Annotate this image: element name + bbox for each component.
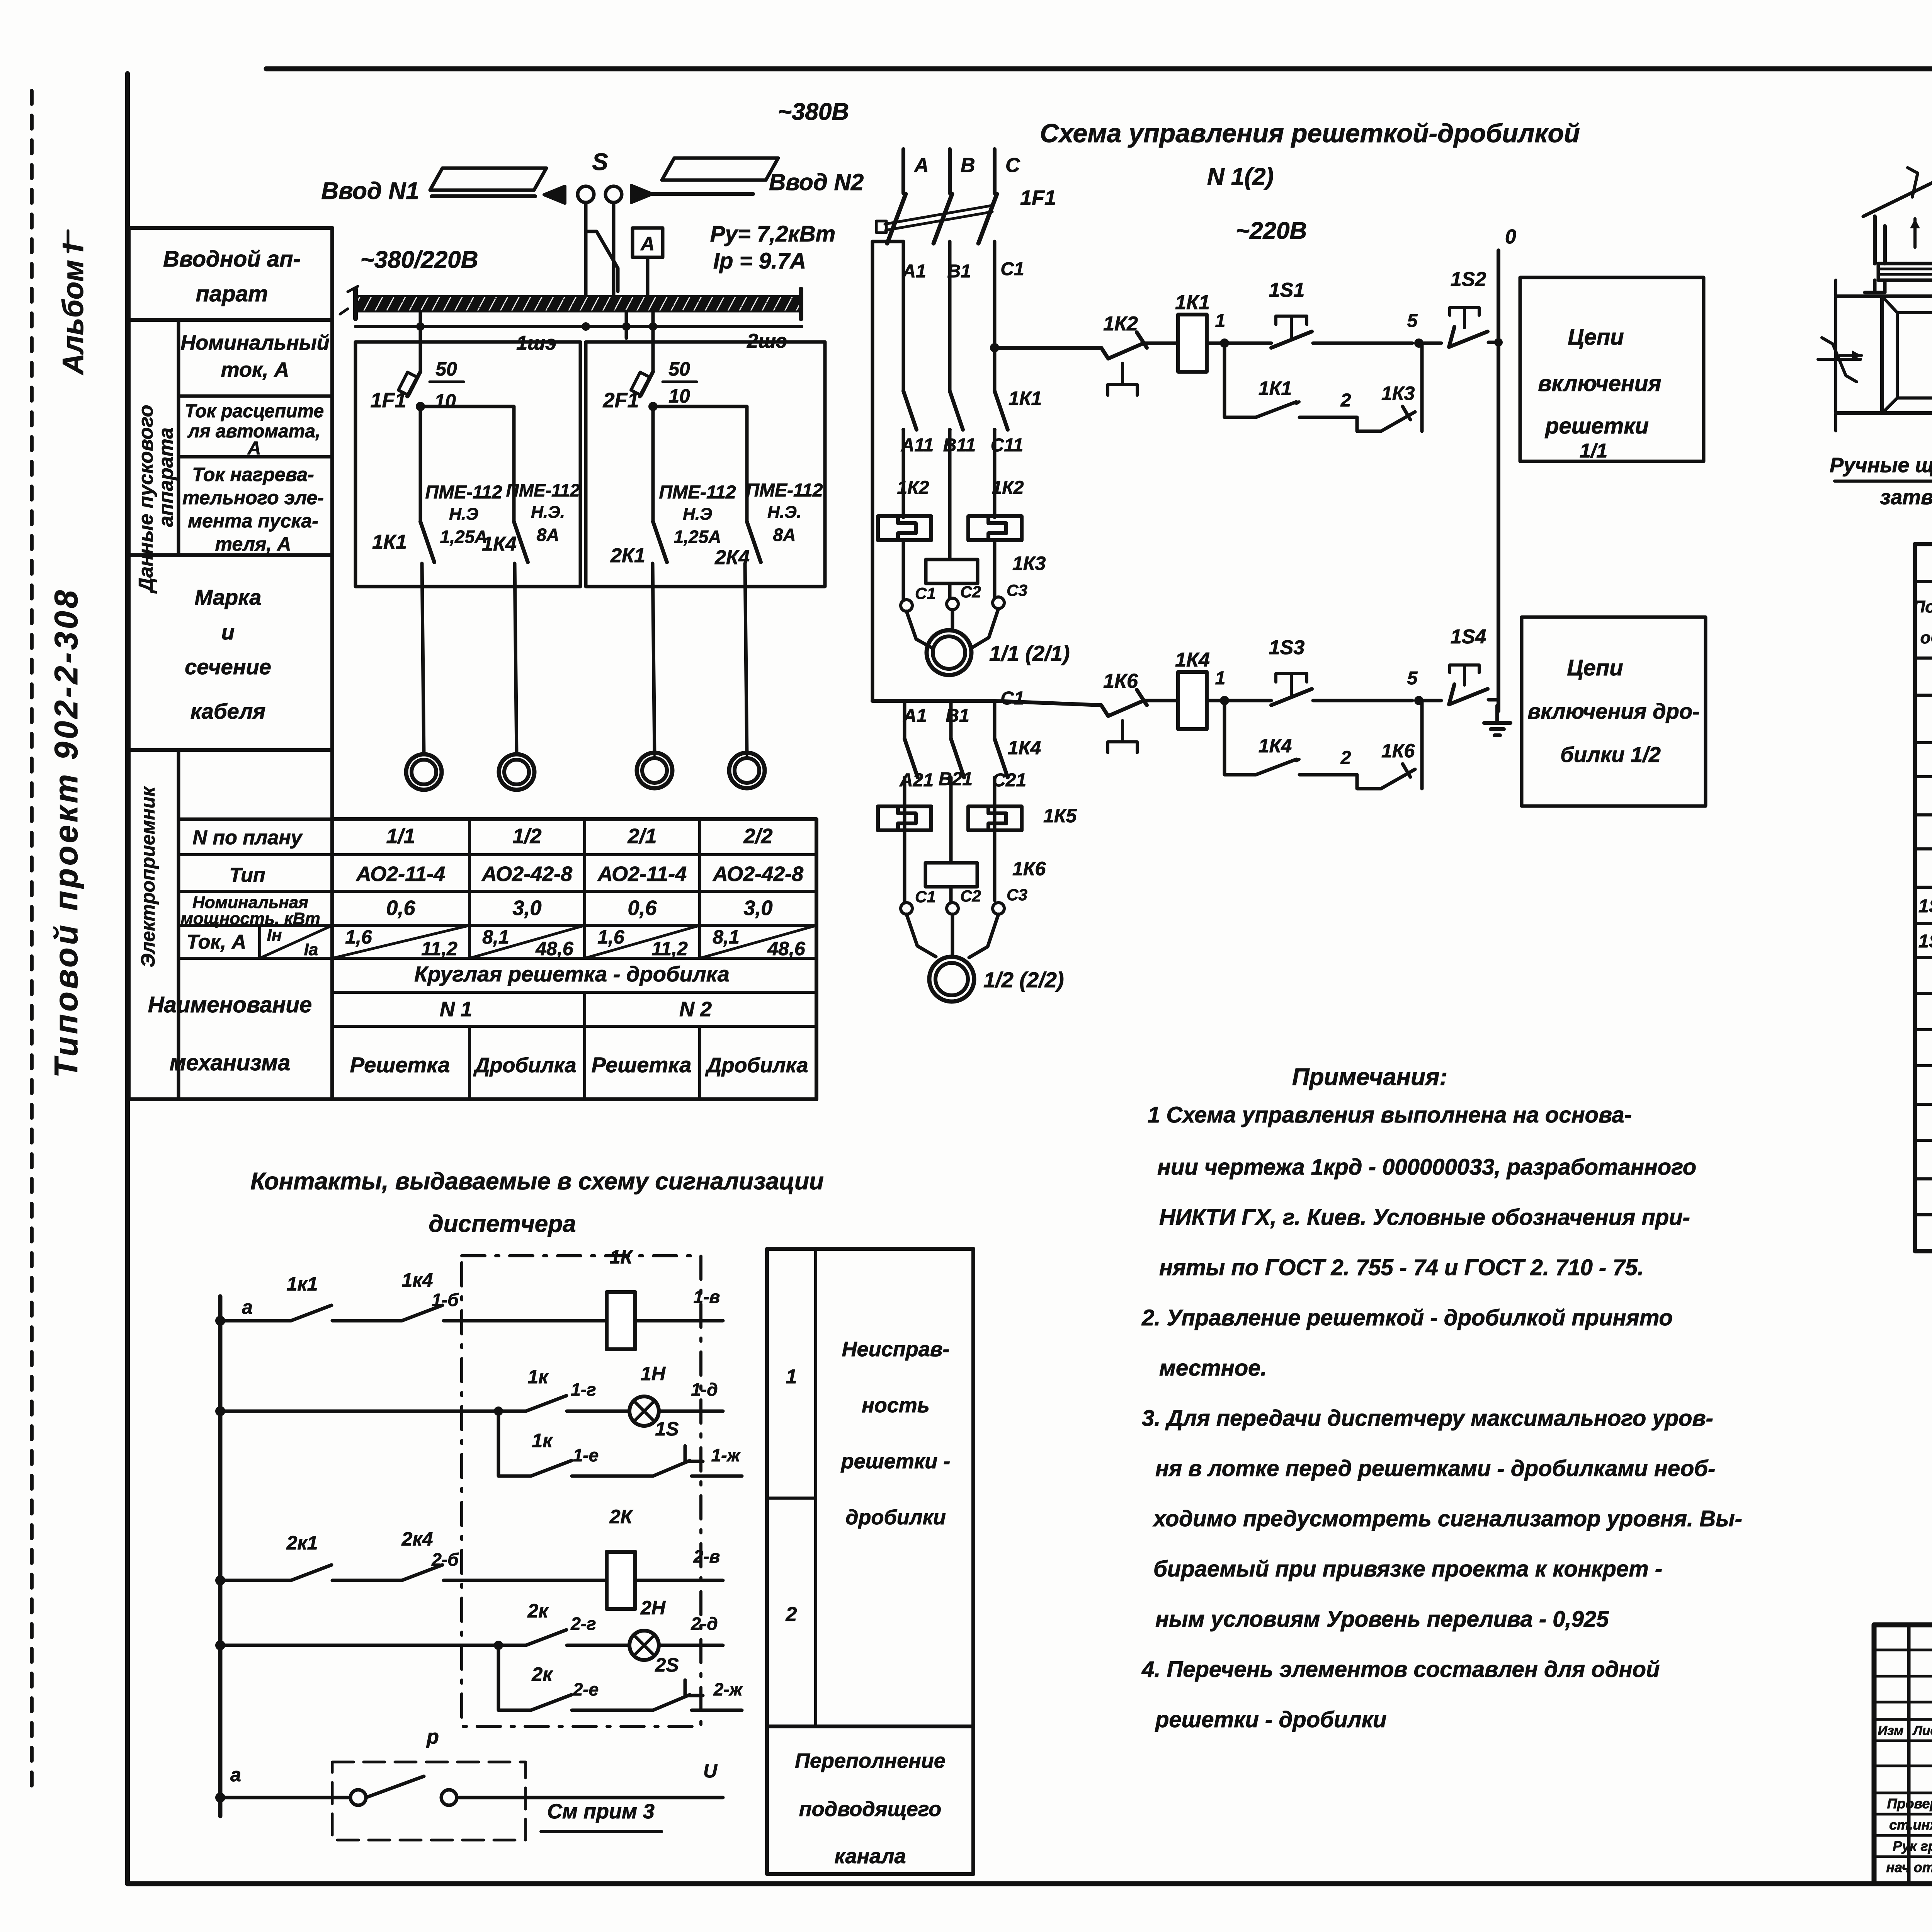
svg-text:1-е: 1-е <box>573 1445 599 1465</box>
left cut line <box>1834 280 1837 431</box>
diagonal In/Ia cell <box>332 925 469 958</box>
svg-text:решетки - дробилки: решетки - дробилки <box>1155 1707 1386 1732</box>
svg-text:бираемый при привязке: бираемый при привязке проекта к конкрет … <box>1153 1556 1662 1582</box>
svg-text:Альбом I: Альбом I <box>57 243 90 376</box>
legend box neispravnost <box>767 1249 973 1726</box>
svg-text:мощность, кВт: мощность, кВт <box>180 909 320 928</box>
frame top border <box>266 66 1932 71</box>
svg-text:2Н: 2Н <box>640 1597 666 1619</box>
terminal c1 motor 1/2 <box>901 903 912 914</box>
svg-text:аппарата: аппарата <box>155 427 177 527</box>
svg-text:С1: С1 <box>1000 259 1024 279</box>
svg-text:Дробилка: Дробилка <box>473 1054 576 1077</box>
svg-text:С1: С1 <box>915 584 936 602</box>
wire row3 <box>220 1579 291 1582</box>
svg-text:2: 2 <box>1340 390 1351 411</box>
feeder symbol parallelogram 2 <box>662 158 778 180</box>
contact 1K row2 <box>526 1396 566 1411</box>
svg-text:2к: 2к <box>527 1600 549 1622</box>
NC contact 1K2 overcurrent <box>1101 332 1147 359</box>
contact circle left <box>350 1790 366 1805</box>
svg-text:Н.Э.: Н.Э. <box>767 503 801 522</box>
svg-text:1/1: 1/1 <box>386 825 415 848</box>
diagonal In/Ia header <box>260 925 332 958</box>
svg-text:решетки -: решетки - <box>840 1450 950 1473</box>
wire 1S1 to node 5 <box>1313 342 1412 345</box>
feeder line 2 <box>652 192 753 196</box>
box cepi vklyucheniya drobilki <box>1522 617 1706 806</box>
feeder wire to 2F1 <box>651 311 655 372</box>
wire node1 to 1S1 <box>1207 342 1271 345</box>
svg-text:0: 0 <box>1505 226 1516 248</box>
legend box perepolnenie <box>767 1726 973 1874</box>
svg-text:1F1: 1F1 <box>370 389 406 412</box>
contact 1K4 row1 <box>402 1305 442 1321</box>
svg-text:S: S <box>592 149 608 175</box>
wire to motor <box>515 563 517 754</box>
svg-text:нач отд: нач отд <box>1886 1859 1932 1875</box>
svg-text:А1: А1 <box>902 261 926 282</box>
contact 2K4 <box>402 1565 442 1580</box>
terminal c2 motor 1/2 <box>947 903 958 914</box>
svg-text:Номинальный: Номинальный <box>180 331 330 354</box>
svg-text:1К3: 1К3 <box>1381 383 1415 404</box>
control tap node C1 <box>990 343 999 352</box>
frame left border <box>125 73 130 1884</box>
branch wire in cabinet 2 <box>653 405 747 408</box>
svg-text:1,25А: 1,25А <box>674 527 721 547</box>
feeder underline 1 <box>432 194 535 198</box>
svg-text:N по плану: N по плану <box>192 827 303 849</box>
busbar right end serif <box>799 289 803 319</box>
svg-text:тельного эле-: тельного эле- <box>182 487 324 509</box>
riser walls below gate <box>1875 280 1932 293</box>
overcurrent relay coil 1K3 <box>926 560 978 583</box>
svg-text:11,2: 11,2 <box>421 938 457 959</box>
contactor coil 1K4 <box>1178 672 1207 729</box>
svg-text:Типовой проект 902-2-308: Типовой проект 902-2-308 <box>48 588 84 1078</box>
svg-text:Схема управления решеткой-др: Схема управления решеткой-дробилкой <box>1040 119 1580 148</box>
svg-text:затворы: затворы <box>1880 486 1932 509</box>
ammeter wire <box>646 257 650 298</box>
svg-text:Неисправ-: Неисправ- <box>842 1338 950 1361</box>
lower branch bus wire <box>872 699 995 703</box>
svg-text:1К1: 1К1 <box>1259 378 1292 399</box>
svg-text:2-г: 2-г <box>570 1614 596 1634</box>
svg-text:ст.инж: ст.инж <box>1889 1817 1932 1833</box>
bypass vertical wire <box>871 241 874 701</box>
svg-text:3,0: 3,0 <box>512 896 541 920</box>
svg-text:Iа: Iа <box>304 940 318 959</box>
bus node row1 <box>215 1316 225 1326</box>
ammeter A box <box>633 228 663 257</box>
node 1 lower <box>1220 696 1229 705</box>
svg-text:теля, А: теля, А <box>215 533 291 555</box>
ledge left <box>1865 291 1885 294</box>
svg-text:С: С <box>1005 154 1020 177</box>
svg-text:Переполнение: Переполнение <box>795 1749 946 1772</box>
svg-text:В1: В1 <box>947 261 971 282</box>
diagonal In/Ia cell <box>469 925 585 958</box>
phase wire mid <box>948 241 952 391</box>
svg-text:3,0: 3,0 <box>743 896 772 920</box>
svg-text:1F1: 1F1 <box>1020 186 1056 209</box>
node 5 upper <box>1414 338 1423 348</box>
svg-text:2. Управление решеткой - д: 2. Управление решеткой - дробилкой приня… <box>1141 1305 1673 1330</box>
svg-text:АО2-42-8: АО2-42-8 <box>481 862 572 886</box>
svg-text:8А: 8А <box>773 525 796 545</box>
stop button 1S2 <box>1449 327 1488 347</box>
phase wire mid <box>902 241 905 391</box>
svg-text:Iр = 9.7А: Iр = 9.7А <box>713 248 806 274</box>
svg-text:Решетка: Решетка <box>592 1053 692 1077</box>
inlet channel top wall <box>1836 294 1882 298</box>
svg-text:канала: канала <box>835 1845 906 1868</box>
svg-text:1К4: 1К4 <box>1008 737 1041 759</box>
svg-text:1к: 1к <box>527 1366 549 1388</box>
break line top <box>1863 168 1932 216</box>
svg-text:2F1: 2F1 <box>602 389 639 412</box>
svg-text:Цепи: Цепи <box>1567 655 1623 680</box>
stub node5 to 1S4 <box>1422 699 1441 702</box>
svg-text:Примечания:: Примечания: <box>1292 1064 1447 1090</box>
hold contact 1K1 <box>1256 402 1296 417</box>
stop button 1S4 <box>1449 684 1488 704</box>
svg-text:В11: В11 <box>943 435 976 456</box>
svg-text:2S: 2S <box>655 1654 679 1676</box>
svg-text:А1: А1 <box>903 706 927 726</box>
svg-text:и: и <box>221 620 235 644</box>
hand gate across riser (stacked planks) <box>1878 264 1932 280</box>
svg-text:С1: С1 <box>1000 688 1024 709</box>
svg-text:50: 50 <box>435 358 457 380</box>
svg-text:парат: парат <box>196 281 268 306</box>
svg-text:2к: 2к <box>531 1663 553 1685</box>
arrow right at S <box>631 185 652 202</box>
contactor 1K1 main contacts <box>903 391 917 430</box>
svg-text:С2: С2 <box>960 583 981 601</box>
svg-text:1К5: 1К5 <box>1043 805 1077 827</box>
svg-text:2-ж: 2-ж <box>713 1679 743 1699</box>
svg-text:8А: 8А <box>537 525 560 545</box>
svg-text:Вводной ап-: Вводной ап- <box>163 247 301 272</box>
svg-text:~220В: ~220В <box>1236 218 1307 244</box>
stub below bus <box>625 311 628 338</box>
upper vertical channel (riser) with break <box>1875 172 1932 264</box>
1F1 crossbar end cap <box>876 221 886 233</box>
channel break mark <box>1818 338 1861 382</box>
phase line В top <box>948 149 952 193</box>
signal lamp 2N <box>629 1631 659 1660</box>
svg-text:1К3: 1К3 <box>1012 553 1046 574</box>
terminal c1 motor 1/1 <box>901 600 912 611</box>
svg-text:Провер.: Провер. <box>1887 1796 1932 1811</box>
node 1 upper <box>1220 338 1229 348</box>
svg-text:10: 10 <box>668 385 690 407</box>
inlet channel bottom wall <box>1836 411 1882 415</box>
svg-text:сечение: сечение <box>185 655 271 679</box>
switch S right stub <box>612 202 616 237</box>
contact 2K row4 <box>526 1630 566 1645</box>
branch node row2 <box>494 1406 503 1416</box>
svg-text:См прим 3: См прим 3 <box>547 1800 655 1823</box>
svg-text:ПМЕ-112: ПМЕ-112 <box>506 480 580 500</box>
svg-text:В21: В21 <box>939 769 973 789</box>
svg-text:1,6: 1,6 <box>597 926 625 948</box>
svg-text:мента пуска-: мента пуска- <box>188 510 318 532</box>
hold branch wire upper <box>1225 343 1256 417</box>
svg-text:Ру= 7,2кВт: Ру= 7,2кВт <box>710 221 835 247</box>
switch S left contact circle <box>578 186 594 202</box>
svg-text:1К2: 1К2 <box>992 478 1024 498</box>
hold branch wire lower <box>1225 701 1256 775</box>
svg-text:Электроприемник: Электроприемник <box>137 786 159 968</box>
wire 2F1 down <box>651 407 655 522</box>
svg-text:Ток, А: Ток, А <box>187 931 246 953</box>
motor symbol 1/1 <box>406 754 442 790</box>
box cepi vklyucheniya reshetki <box>1520 277 1704 461</box>
svg-text:1S3: 1S3 <box>1269 636 1305 659</box>
svg-text:нии чертежа 1крд - 000000: нии чертежа 1крд - 000000033, разработан… <box>1157 1155 1696 1180</box>
terminal c3 motor 1/2 <box>993 903 1004 914</box>
svg-text:АО2-11-4: АО2-11-4 <box>597 862 687 886</box>
motor symbol 2/1 <box>637 753 672 788</box>
svg-text:1S1; 1S3: 1S1; 1S3 <box>1918 896 1932 917</box>
svg-text:8,1: 8,1 <box>713 926 740 948</box>
NC contact 1K3 overcurrent <box>1381 406 1415 431</box>
svg-text:U: U <box>703 1760 718 1782</box>
left header table: vvodnoy apparat <box>129 228 332 320</box>
wires to motor 1/2 <box>906 914 998 957</box>
svg-text:1: 1 <box>1215 668 1226 689</box>
svg-text:2-е: 2-е <box>573 1679 599 1699</box>
contact 1K row2b <box>531 1461 571 1476</box>
svg-text:1К6: 1К6 <box>1103 670 1138 692</box>
svg-text:48,6: 48,6 <box>535 938 574 959</box>
starter contact 1K4 <box>514 522 528 562</box>
wires to motor 1/1 <box>906 609 998 649</box>
svg-text:АО2-42-8: АО2-42-8 <box>712 862 803 886</box>
svg-text:Данные пускового: Данные пускового <box>135 405 157 594</box>
svg-text:0,6: 0,6 <box>628 896 657 920</box>
svg-text:5: 5 <box>1407 668 1418 689</box>
svg-text:1: 1 <box>786 1366 797 1388</box>
svg-text:Контакты, выдаваемые в схе: Контакты, выдаваемые в схему сигнализаци… <box>250 1168 824 1195</box>
control wire 1 <box>995 346 1101 350</box>
svg-text:1К1: 1К1 <box>1009 388 1042 409</box>
cabinet 2she outline <box>586 342 825 587</box>
svg-text:1,6: 1,6 <box>345 926 372 948</box>
svg-text:АО2-11-4: АО2-11-4 <box>355 862 445 886</box>
table perechen elementov <box>1915 544 1932 1251</box>
svg-text:1-д: 1-д <box>691 1379 718 1400</box>
motor symbol 1/2 <box>499 754 534 790</box>
svg-text:1-ж: 1-ж <box>711 1445 741 1465</box>
svg-text:Решетка: Решетка <box>350 1053 450 1077</box>
wire row4 <box>220 1644 526 1647</box>
wire to motor <box>745 563 747 754</box>
svg-text:~380/220В: ~380/220В <box>360 247 478 273</box>
second bus line 2she <box>355 325 802 328</box>
svg-text:2-в: 2-в <box>693 1546 720 1566</box>
svg-text:48,6: 48,6 <box>767 938 806 959</box>
feeder wire to 1F1 <box>419 311 422 372</box>
thermal element 1K2 phase C <box>968 516 1022 540</box>
svg-text:Цепи: Цепи <box>1568 325 1624 350</box>
wire S to busbar <box>584 231 588 296</box>
diagonal In/Ia cell <box>585 925 700 958</box>
contactor coil 1K1 <box>1178 315 1207 372</box>
contact 1K1 row1 <box>291 1305 332 1321</box>
terminal c2 motor 1/1 <box>947 598 958 610</box>
svg-text:диспетчера: диспетчера <box>429 1211 576 1237</box>
wire row2 <box>220 1410 526 1413</box>
busbar connection ticks <box>340 286 358 314</box>
svg-text:ность: ность <box>862 1394 930 1417</box>
junction on line 0 <box>1494 338 1503 347</box>
svg-text:1/1 (2/1): 1/1 (2/1) <box>989 641 1070 665</box>
branch wire in cabinet 1 <box>420 405 514 408</box>
circuit breaker 2F1 <box>640 372 653 396</box>
switch S blade <box>586 202 618 291</box>
svg-text:1-б: 1-б <box>432 1290 459 1310</box>
svg-text:2-д: 2-д <box>690 1614 718 1634</box>
svg-text:Круглая решетка - дробилка: Круглая решетка - дробилка <box>414 962 730 986</box>
svg-text:2к1: 2к1 <box>286 1532 318 1554</box>
svg-text:1/2 (2/2): 1/2 (2/2) <box>983 968 1064 992</box>
svg-text:2: 2 <box>786 1603 797 1626</box>
control wire 2 <box>995 701 1101 705</box>
dashed box level switch <box>332 1762 526 1840</box>
svg-text:1К4: 1К4 <box>1175 649 1210 671</box>
contact 2K1 <box>291 1565 332 1580</box>
svg-text:Ручные щитовые: Ручные щитовые <box>1830 454 1932 477</box>
thermal element 1K2 phase A <box>878 516 931 540</box>
svg-text:р: р <box>426 1726 439 1748</box>
svg-text:N 1: N 1 <box>440 998 472 1021</box>
svg-text:11,2: 11,2 <box>651 938 688 959</box>
svg-text:А11: А11 <box>901 435 934 456</box>
svg-text:Н.Э.: Н.Э. <box>531 503 565 522</box>
svg-text:Ввод N1: Ввод N1 <box>321 178 419 204</box>
junction dot on bus 2 <box>622 322 631 331</box>
svg-text:ным условиям Уровень пе: ным условиям Уровень перелива - 0,925 <box>1155 1607 1609 1632</box>
svg-text:Изм: Изм <box>1878 1723 1904 1738</box>
svg-text:1/2: 1/2 <box>512 825 541 848</box>
left punched-margin dashed line <box>30 91 34 1795</box>
svg-text:50: 50 <box>668 358 690 380</box>
svg-text:В: В <box>961 154 975 177</box>
svg-text:1К1: 1К1 <box>1175 291 1210 314</box>
svg-text:1к1: 1к1 <box>287 1273 318 1295</box>
motor 1/1 (2/1) <box>927 630 971 675</box>
thermal element 1K5 phase A <box>878 806 931 830</box>
svg-text:N 1(2): N 1(2) <box>1207 163 1274 190</box>
branch wire row2b <box>498 1411 531 1476</box>
wire row1 a <box>220 1319 291 1323</box>
svg-text:билки 1/2: билки 1/2 <box>1560 742 1661 767</box>
wire to motor <box>422 563 424 754</box>
break zigzag top <box>1908 168 1918 197</box>
svg-text:1S4: 1S4 <box>1451 626 1486 648</box>
svg-text:механизма: механизма <box>170 1050 291 1075</box>
phase line С top <box>993 149 997 193</box>
junction 2F1 branch <box>648 402 658 411</box>
circuit breaker 1F1 <box>407 372 420 396</box>
contact circle right <box>441 1790 457 1805</box>
branch wire row4b <box>498 1645 531 1710</box>
svg-text:1-г: 1-г <box>571 1379 596 1400</box>
svg-text:С21: С21 <box>992 770 1026 791</box>
svg-text:НИКТИ ГХ, г. Киев. Усл: НИКТИ ГХ, г. Киев. Условные обозначения … <box>1159 1205 1690 1230</box>
svg-text:1-в: 1-в <box>694 1287 720 1307</box>
svg-text:Лист: Лист <box>1912 1723 1932 1738</box>
svg-text:1S: 1S <box>655 1418 679 1440</box>
svg-text:местное.: местное. <box>1159 1355 1267 1381</box>
title block (stamp) <box>1874 1625 1932 1884</box>
svg-text:~380В: ~380В <box>778 99 849 125</box>
svg-text:2-б: 2-б <box>431 1549 459 1570</box>
svg-text:С11: С11 <box>991 435 1024 456</box>
svg-text:Н.Э: Н.Э <box>449 505 478 524</box>
svg-text:1к4: 1к4 <box>402 1269 433 1291</box>
circuit breaker 1F1 (3-pole) <box>887 194 906 243</box>
bypass jog <box>872 240 903 243</box>
ground symbol <box>1484 706 1510 735</box>
node 5 lower <box>1414 696 1423 705</box>
svg-text:2К1: 2К1 <box>610 544 645 567</box>
level switch blade <box>366 1776 424 1798</box>
svg-text:ток, А: ток, А <box>221 358 289 381</box>
svg-text:2/1: 2/1 <box>627 825 656 848</box>
diagonal In/Ia cell <box>700 925 816 958</box>
starter contact 1K1 <box>420 522 434 562</box>
contact 2K row4b <box>531 1695 571 1710</box>
svg-text:С1: С1 <box>915 888 936 906</box>
svg-text:1К1: 1К1 <box>372 531 407 553</box>
motor symbol 2/2 <box>729 753 765 788</box>
wire 1F1 down <box>419 407 422 522</box>
junction dot on bus <box>582 322 590 331</box>
svg-text:1 Схема управления выполн: 1 Схема управления выполнена на основа- <box>1148 1102 1632 1128</box>
switch 2S contact <box>653 1680 703 1710</box>
svg-text:0,6: 0,6 <box>386 896 415 920</box>
svg-text:включения дро-: включения дро- <box>1527 699 1699 723</box>
svg-text:ня в лотке перед решеткам: ня в лотке перед решетками - дробилками … <box>1155 1456 1716 1481</box>
svg-text:ПМЕ-112: ПМЕ-112 <box>659 482 736 503</box>
svg-text:С3: С3 <box>1007 886 1027 904</box>
svg-text:Марка: Марка <box>195 585 262 609</box>
svg-text:Ввод N2: Ввод N2 <box>769 169 864 195</box>
svg-text:подводящего: подводящего <box>799 1798 941 1821</box>
contactor 1K4 main contacts <box>903 701 906 739</box>
overcurrent relay coil 1K6 <box>925 863 977 887</box>
flow arrow up riser <box>1913 219 1917 247</box>
dashed boundary dispatcher panel <box>462 1256 701 1726</box>
hold branch up to node 5 lower <box>1420 701 1424 789</box>
svg-text:2: 2 <box>1340 748 1351 768</box>
svg-text:включения: включения <box>1538 371 1661 396</box>
starter contact 2K1 <box>653 522 667 562</box>
wire to motor <box>653 563 655 754</box>
switch 1S contact <box>653 1446 703 1476</box>
svg-text:А: А <box>640 233 655 255</box>
svg-text:1: 1 <box>1215 311 1226 331</box>
relay coil 1K <box>607 1292 635 1349</box>
motor 1/2 (2/2) <box>929 957 974 1002</box>
neutral line 0 <box>1497 250 1500 711</box>
thermal element 1K5 phase C <box>968 806 1022 830</box>
